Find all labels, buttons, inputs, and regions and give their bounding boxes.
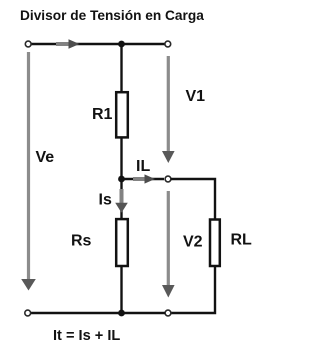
wire: node to Rs top lead [120,180,122,219]
svg-text:Ve: Ve [36,149,55,166]
svg-text:It = Is + IL: It = Is + IL [53,328,120,344]
current arrow IL [133,174,155,183]
wire: node to load-node circle (IL path) [122,178,165,180]
voltage arrow Ve (input voltage, left side) [21,52,36,291]
wire: Rs bottom lead [120,265,122,314]
current arrow Is [115,189,128,213]
junction dot: node A (R1/Rs/IL) [118,176,125,183]
junction dot: bottom wire / Rs branch [118,310,125,317]
terminal circle: bottom-left [25,310,31,316]
svg-text:Rs: Rs [71,233,92,250]
resistor RL [210,220,220,267]
terminal circle: top-right of V1 (node top) [165,41,171,47]
node circle: bottom (between V2 arrow and bottom wire) [165,310,171,316]
wire: node circle to RL top corner [171,179,215,219]
wire: R1 top lead [120,44,122,92]
node circle: load tap (between V1 and V2) [165,176,171,182]
svg-text:V1: V1 [186,88,206,105]
svg-text:R1: R1 [92,106,113,123]
wire: bottom horizontal from circle to output terminal [30,312,165,314]
voltage arrow V2 (across Rs/RL) [162,191,175,298]
resistor Rs [116,219,128,266]
svg-text:IL: IL [136,158,150,175]
current arrow It on top wire [56,39,80,48]
wire: top horizontal from input terminal to node circle [30,43,165,45]
svg-text:Is: Is [99,192,112,209]
svg-text:V2: V2 [183,234,203,251]
svg-text:Divisor de Tensión en Carga: Divisor de Tensión en Carga [20,8,204,23]
voltage arrow V1 (across R1, right side) [162,56,175,163]
wire: RL bottom lead down and left to bottom node circle [171,265,215,313]
terminal circle: top-left input [25,41,31,47]
svg-text:RL: RL [231,232,253,249]
wire: R1 bottom lead to node [120,137,122,180]
resistor R1 [116,92,128,137]
junction dot: top wire / R1 branch [118,41,125,48]
